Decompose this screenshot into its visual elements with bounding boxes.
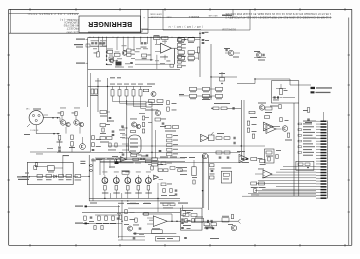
svg-text:EURORACK: EURORACK <box>64 21 79 24</box>
svg-text:MX-B02 FB3: MX-B02 FB3 <box>63 24 79 27</box>
svg-text:MDI / AB: MDI / AB <box>208 14 217 17</box>
svg-text:BLAB: BLAB <box>166 16 172 19</box>
svg-text:1 LINE IN: 1 LINE IN <box>30 130 39 132</box>
svg-text:PROJECT: PROJECT <box>66 27 79 30</box>
svg-text:9820401C6M: 9820401C6M <box>222 28 236 30</box>
svg-text:BEHRINGER: BEHRINGER <box>88 20 132 27</box>
svg-text:( AB / ( EB ) / ED ) - H: ( AB / ( EB ) / ED ) - H <box>168 25 203 29</box>
svg-text:982040-1: 982040-1 <box>188 15 199 18</box>
svg-text:MIC: MIC <box>26 109 30 111</box>
svg-text:SHEET 1 OF 2 SHEETS TOTA: SHEET 1 OF 2 SHEETS TOTAL <box>26 12 78 15</box>
svg-text:CHANNEL..( 1 ): CHANNEL..( 1 ) <box>60 18 79 21</box>
svg-text:97-10-16 AB: 97-10-16 AB <box>150 15 161 18</box>
svg-text:DATE 03-MAI: DATE 03-MAI <box>150 12 162 15</box>
svg-text:1 05-CT-97 CHANGED R71 R72 2K2: 1 05-CT-97 CHANGED R71 R72 2K21 C4 C44 1… <box>225 12 331 15</box>
svg-text:2 11-MR-98 CHANGED C12 100N R1: 2 11-MR-98 CHANGED C12 100N R15 4K7 REPL… <box>225 15 331 18</box>
